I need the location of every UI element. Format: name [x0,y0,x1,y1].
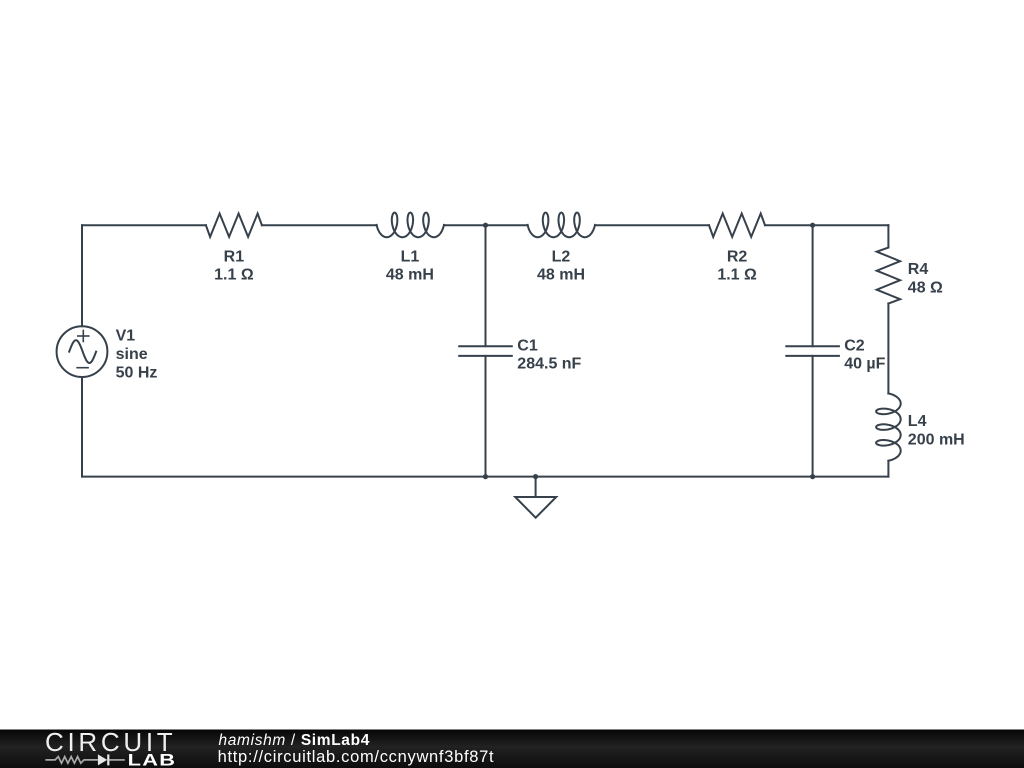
svg-text:sine: sine [116,346,148,363]
svg-text:1.1 Ω: 1.1 Ω [717,267,757,284]
label L2 48 mH [537,248,585,283]
resistor R4 [877,248,900,304]
wire C2 bottom lead [812,356,814,477]
svg-text:48 Ω: 48 Ω [908,279,943,296]
svg-text:48 mH: 48 mH [537,267,585,284]
wire left vertical above V1 [81,225,83,326]
ground [515,477,556,518]
svg-text:40 µF: 40 µF [844,356,885,373]
wire C1 top lead [485,225,487,346]
wire C2 top lead [812,225,814,346]
label V1 sine 50 Hz [116,328,158,382]
wire left vertical below V1 [81,377,83,477]
wire R1 to L1 [262,224,377,226]
svg-text:http://circuitlab.com/ccnywnf3: http://circuitlab.com/ccnywnf3bf87t [218,748,495,766]
inductor L4 [876,393,901,460]
wire right vertical above R4 [887,225,889,247]
svg-text:L2: L2 [552,248,571,265]
label L4 200 mH [908,413,965,448]
label R1 1.1 ohm [214,248,254,283]
capacitor C2 [786,346,839,356]
wire C1 bottom lead [485,356,487,477]
svg-text:1.1 Ω: 1.1 Ω [214,267,254,284]
wire right vertical R4 to L4 [887,304,889,394]
node C1-bottom junction dot [483,474,488,479]
label C1 284.5 nF [517,337,581,372]
inductor L2 [528,213,595,238]
svg-text:R1: R1 [224,248,245,265]
svg-text:50 Hz: 50 Hz [116,365,158,382]
resistor R1 [206,214,262,237]
svg-text:LAB: LAB [128,752,177,768]
svg-text:C2: C2 [844,337,865,354]
label R4 48 ohm [908,261,943,296]
inductor L1 [377,213,444,238]
svg-text:R4: R4 [908,261,929,278]
svg-text:48 mH: 48 mH [386,267,434,284]
label R2 1.1 ohm [717,248,757,283]
voltage source V1 [57,326,108,377]
node B junction dot [810,223,815,228]
svg-text:C1: C1 [517,337,538,354]
label C2 40 uF [844,337,885,372]
label L1 48 mH [386,248,434,283]
svg-text:hamishm / SimLab4: hamishm / SimLab4 [219,732,370,749]
wire bottom rail [82,476,888,478]
footer bar [0,730,1024,768]
svg-text:L4: L4 [908,413,927,430]
node C2-bottom junction dot [810,474,815,479]
resistor R2 [709,214,765,237]
capacitor C1 [459,346,512,356]
svg-text:284.5 nF: 284.5 nF [517,356,581,373]
svg-text:V1: V1 [116,328,136,345]
svg-text:200 mH: 200 mH [908,431,965,448]
svg-text:R2: R2 [727,248,748,265]
node A junction dot [483,223,488,228]
node ground junction dot [533,474,538,479]
wire L1 to L2 through node A [444,224,528,226]
wire right vertical below L4 [887,461,889,477]
wire L2 to R2 [595,224,709,226]
wire R2 to top-right corner [765,224,888,226]
CircuitLab logo resistor-diode glyph [45,757,124,764]
wire top-left horizontal [82,224,206,226]
svg-text:L1: L1 [401,248,420,265]
